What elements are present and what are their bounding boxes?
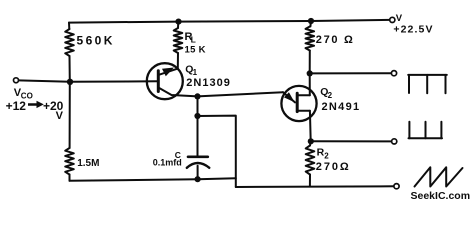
svg-text:2: 2 xyxy=(324,152,329,161)
svg-text:2: 2 xyxy=(328,91,333,100)
svg-text:+22.5V: +22.5V xyxy=(393,24,433,36)
svg-text:15 K: 15 K xyxy=(185,44,206,55)
svg-text:V: V xyxy=(56,110,64,122)
svg-text:+12: +12 xyxy=(6,99,27,113)
svg-text:1.5M: 1.5M xyxy=(77,158,99,169)
svg-text:L: L xyxy=(191,35,196,45)
svg-text:2N1309: 2N1309 xyxy=(186,77,231,89)
svg-text:V: V xyxy=(396,13,403,24)
svg-text:270 Ω: 270 Ω xyxy=(316,34,355,46)
svg-text:1: 1 xyxy=(193,68,198,77)
svg-text:0.1mfd: 0.1mfd xyxy=(153,158,182,168)
svg-text:2N491: 2N491 xyxy=(322,101,361,113)
svg-text:270Ω: 270Ω xyxy=(316,161,351,173)
svg-text:560K: 560K xyxy=(77,34,115,48)
svg-text:SeekIC.com: SeekIC.com xyxy=(411,190,471,202)
